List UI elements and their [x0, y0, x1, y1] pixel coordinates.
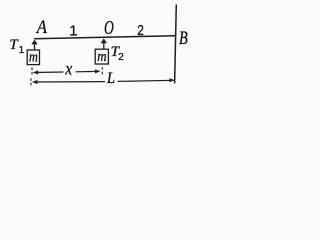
svg-text:m: m: [29, 49, 38, 65]
svg-text:2: 2: [137, 22, 144, 39]
svg-text:O: O: [104, 17, 114, 39]
svg-text:1: 1: [19, 45, 25, 56]
svg-text:A: A: [35, 17, 47, 38]
svg-text:1: 1: [69, 22, 77, 39]
svg-text:x: x: [64, 59, 72, 79]
svg-text:m: m: [97, 49, 107, 65]
svg-text:L: L: [106, 70, 115, 87]
svg-text:B: B: [179, 28, 188, 49]
svg-text:2: 2: [118, 52, 124, 63]
